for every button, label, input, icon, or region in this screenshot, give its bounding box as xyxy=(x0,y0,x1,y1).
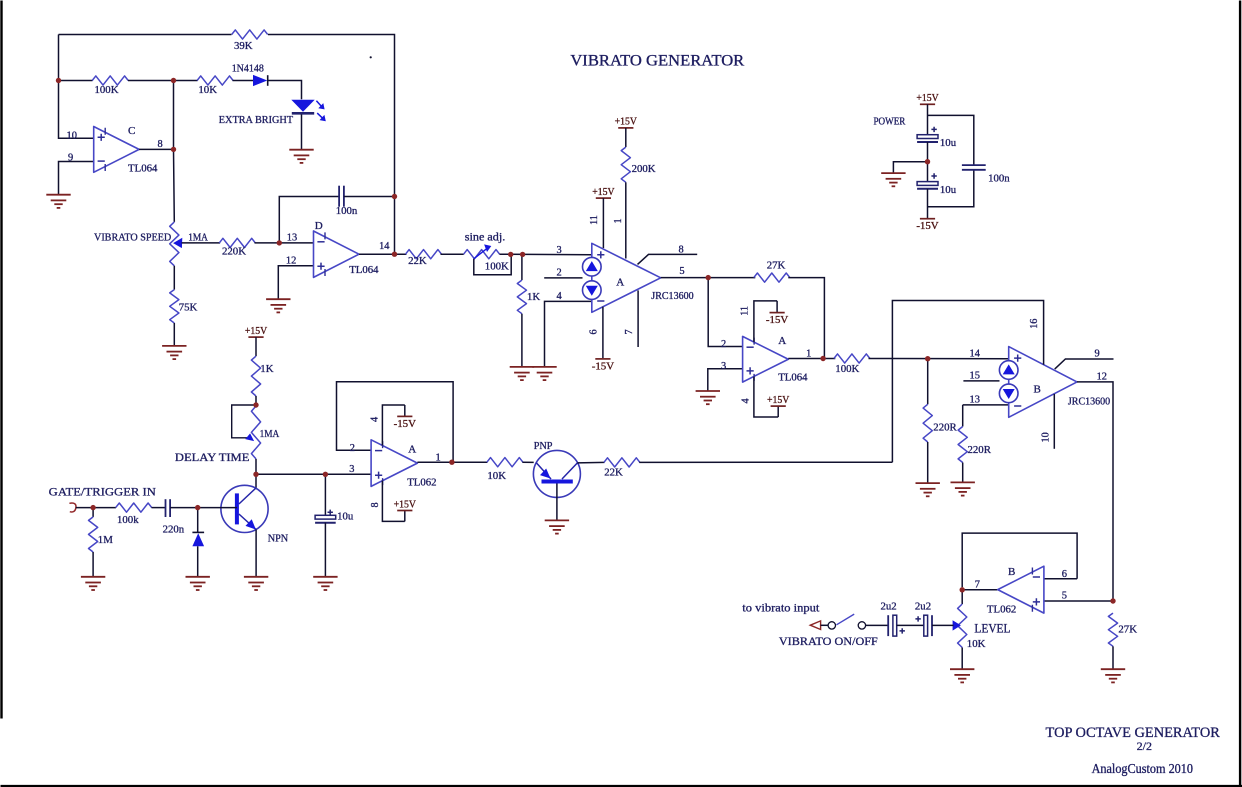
pot wiper level xyxy=(953,620,961,630)
capacitor 10u lower xyxy=(917,173,957,196)
svg-text:1N4148: 1N4148 xyxy=(232,62,264,74)
svg-text:15: 15 xyxy=(970,371,980,382)
svg-text:2u2: 2u2 xyxy=(915,601,931,613)
resistor P 1MA delay xyxy=(251,406,260,459)
svg-text:4: 4 xyxy=(370,417,381,422)
wire emitter to ground xyxy=(255,530,257,577)
svg-text:LEVEL: LEVEL xyxy=(974,621,1010,635)
wire 27K2 to ground xyxy=(1112,646,1114,669)
wire collector wire xyxy=(255,474,257,488)
ground opamp C pin9 xyxy=(46,195,70,208)
wire 10u lead xyxy=(324,474,326,515)
svg-text:GATE/TRIGGER IN: GATE/TRIGGER IN xyxy=(49,485,157,499)
svg-text:7: 7 xyxy=(975,580,980,591)
svg-text:13: 13 xyxy=(287,233,297,244)
wire pin9 wire xyxy=(59,162,94,195)
wire neg15 stem 062A xyxy=(404,405,406,416)
svg-text:11: 11 xyxy=(739,306,750,316)
wire 100n feedback left xyxy=(279,197,339,243)
input hook xyxy=(69,503,76,512)
svg-text:10K: 10K xyxy=(487,470,506,482)
junction node pin5 xyxy=(1110,598,1115,603)
transistor NPN xyxy=(221,485,288,544)
wire neg15 stem A xyxy=(776,301,778,312)
wire LED to ground xyxy=(301,115,303,150)
wire 27K input xyxy=(708,277,755,279)
svg-text:5: 5 xyxy=(679,266,684,277)
diode 1N4148 xyxy=(232,62,268,86)
wire 200K to pin1 xyxy=(625,182,627,258)
capacitor 2u2 a xyxy=(881,601,905,637)
svg-text:220R: 220R xyxy=(968,444,992,456)
svg-text:+15V: +15V xyxy=(767,394,789,406)
wire left vertical xyxy=(58,35,60,81)
wire pin7 wire xyxy=(962,589,998,591)
wire pin16 path xyxy=(892,301,1043,463)
wire out5 wire xyxy=(661,277,709,279)
resistor R 22K xyxy=(406,250,442,267)
wire pin4 path A xyxy=(754,377,778,417)
svg-text:TL064: TL064 xyxy=(778,371,808,383)
ground 220R-1 xyxy=(916,483,940,496)
ground 75K xyxy=(162,346,186,359)
ground tl064A pin3 xyxy=(696,391,720,404)
svg-text:1M: 1M xyxy=(98,534,113,546)
svg-text:C: C xyxy=(128,125,135,137)
junction node pin14 xyxy=(925,356,930,361)
wire output8 wire xyxy=(139,148,173,150)
wire 1K lead xyxy=(521,254,523,280)
transistor PNP xyxy=(533,440,580,497)
svg-text:JRC13600: JRC13600 xyxy=(1068,397,1110,408)
wire pin15 stub xyxy=(963,380,999,382)
wire 220R-1 lead xyxy=(927,359,929,405)
svg-text:1MA: 1MA xyxy=(260,428,280,440)
resistor R 1K xyxy=(517,280,540,314)
power +15V jrcA pin11 xyxy=(592,186,614,198)
svg-text:POWER: POWER xyxy=(874,117,906,128)
svg-text:-15V: -15V xyxy=(592,360,614,372)
ground R1K xyxy=(510,367,534,380)
wire power bottom stem xyxy=(927,189,929,219)
pin 9 stub xyxy=(1055,359,1114,369)
resistor R 100K 2 xyxy=(834,354,870,375)
svg-text:VIBRATO ON/OFF: VIBRATO ON/OFF xyxy=(779,634,878,648)
svg-text:+15V: +15V xyxy=(245,325,267,337)
svg-text:sine adj.: sine adj. xyxy=(465,232,506,244)
capacitor 100n power xyxy=(962,165,1010,184)
svg-text:75K: 75K xyxy=(179,301,198,313)
wire hook to node xyxy=(76,507,93,509)
junction node pin7 xyxy=(960,587,965,592)
wire 100k to 220n xyxy=(152,507,166,509)
wire pin11 stem xyxy=(602,198,604,248)
svg-text:22K: 22K xyxy=(604,466,623,478)
wire PNP collector out xyxy=(577,461,604,464)
power -15V tl064A pin11 xyxy=(766,313,788,327)
wire clamp diode lead xyxy=(197,508,199,532)
wire pin4 wire xyxy=(545,301,592,367)
op-amp U1D TL064 xyxy=(314,231,360,277)
wire 1K delay lead xyxy=(255,337,257,356)
wire 39K feedback top xyxy=(59,34,232,36)
resistor R 200K xyxy=(621,147,656,182)
svg-text:200K: 200K xyxy=(632,163,656,175)
svg-text:1MA: 1MA xyxy=(188,231,208,243)
svg-text:NPN: NPN xyxy=(268,533,289,545)
svg-text:1: 1 xyxy=(806,349,811,360)
junction node input xyxy=(90,505,95,510)
wire pos15 stem 062A xyxy=(404,511,406,522)
OTA U2B JRC13600 xyxy=(999,347,1077,418)
resistor R 27K 2 xyxy=(1108,613,1137,646)
svg-text:TL064: TL064 xyxy=(128,162,158,174)
svg-text:6: 6 xyxy=(1062,569,1067,580)
ground LED xyxy=(289,150,313,163)
svg-text:B: B xyxy=(1034,383,1041,395)
wire pin7 stub xyxy=(637,290,639,347)
svg-text:+15V: +15V xyxy=(592,186,614,198)
svg-text:TOP OCTAVE GENERATOR: TOP OCTAVE GENERATOR xyxy=(1046,724,1221,741)
op-amp U1C TL064 xyxy=(94,127,139,173)
resistor R 1M xyxy=(89,517,114,552)
wire pot to collector node xyxy=(255,459,257,474)
op-amp U4A TL062 xyxy=(371,440,417,487)
svg-text:AnalogCustom 2010: AnalogCustom 2010 xyxy=(1092,761,1194,776)
wire PNP base to ground xyxy=(556,484,558,521)
wire power top rail xyxy=(928,115,974,164)
wire level pot top xyxy=(961,590,963,604)
svg-text:12: 12 xyxy=(286,255,296,266)
svg-text:220R: 220R xyxy=(933,422,957,434)
LED EXTRA BRIGHT xyxy=(291,100,326,122)
wire cap1 to cap2 xyxy=(897,624,924,626)
wire 1M to ground xyxy=(92,552,94,577)
wire pin12 path xyxy=(1077,382,1113,601)
resistor R 27K xyxy=(754,260,790,283)
ground 1M xyxy=(81,577,105,590)
svg-text:10u: 10u xyxy=(940,184,957,196)
ground 10u xyxy=(313,577,337,590)
svg-text:100K: 100K xyxy=(835,363,859,375)
junction node sine2 xyxy=(520,252,525,257)
wire pin5 wire xyxy=(1044,600,1113,602)
svg-text:2u2: 2u2 xyxy=(881,601,897,613)
resistor P sine adj 100K xyxy=(464,250,500,259)
svg-text:JRC13600: JRC13600 xyxy=(651,291,693,302)
wire 200K top lead xyxy=(625,128,627,147)
svg-text:PNP: PNP xyxy=(534,440,553,452)
resistor R 220K xyxy=(219,238,255,257)
svg-text:14: 14 xyxy=(379,241,390,252)
wire power bottom rail xyxy=(928,171,974,207)
svg-text:-15V: -15V xyxy=(394,418,416,430)
svg-text:TL062: TL062 xyxy=(987,604,1016,616)
junction node cap-vert xyxy=(392,194,397,199)
svg-text:EXTRA BRIGHT: EXTRA BRIGHT xyxy=(219,114,294,126)
svg-text:11: 11 xyxy=(589,215,600,225)
wire 100n right plate xyxy=(344,196,395,198)
svg-text:DELAY TIME: DELAY TIME xyxy=(175,451,250,464)
junction node base xyxy=(195,505,200,510)
svg-text:2/2: 2/2 xyxy=(1137,739,1152,753)
wire pin12 wire xyxy=(278,266,313,299)
wire 75K to ground xyxy=(173,323,175,346)
svg-text:1: 1 xyxy=(436,453,441,464)
wire diode to LED xyxy=(268,81,302,100)
ground PNP base xyxy=(545,520,569,533)
svg-text:100n: 100n xyxy=(988,173,1010,185)
resistor R 220R 1 xyxy=(923,404,957,442)
wire pin4 power A xyxy=(382,405,404,445)
wire 10K to diode xyxy=(233,80,254,82)
junction node out 062A xyxy=(449,460,454,465)
svg-text:B: B xyxy=(1008,566,1015,578)
svg-text:VIBRATO GENERATOR: VIBRATO GENERATOR xyxy=(570,53,745,70)
OTA U2A JRC13600 xyxy=(583,243,661,312)
wire out1 wire A xyxy=(788,358,835,360)
off-page arrow xyxy=(810,621,820,630)
svg-text:220n: 220n xyxy=(163,524,185,536)
wire pin8 power A xyxy=(382,481,404,522)
svg-text:10u: 10u xyxy=(337,511,354,523)
svg-text:2: 2 xyxy=(350,443,355,454)
wire vert cap to out14 xyxy=(394,197,396,255)
svg-text:10: 10 xyxy=(1040,432,1051,442)
svg-text:9: 9 xyxy=(68,152,73,163)
switch VIBRATO ON/OFF xyxy=(779,614,878,648)
capacitor 220n xyxy=(163,499,185,535)
wire 220R-1 to ground xyxy=(927,442,929,483)
svg-text:2: 2 xyxy=(721,339,726,350)
svg-text:TL062: TL062 xyxy=(407,477,436,489)
svg-text:to vibrato input: to vibrato input xyxy=(742,601,820,615)
junction node 10u xyxy=(323,472,328,477)
svg-text:-15V: -15V xyxy=(766,314,788,326)
svg-text:10u: 10u xyxy=(940,137,957,149)
wire 22K2 long wire xyxy=(639,461,892,463)
svg-text:1: 1 xyxy=(613,218,624,223)
svg-text:100K: 100K xyxy=(95,84,119,96)
svg-text:3: 3 xyxy=(557,245,562,256)
junction node out8 xyxy=(171,147,176,152)
svg-text:10K: 10K xyxy=(967,638,986,650)
junction node out5 xyxy=(706,275,711,280)
wire 220n to base xyxy=(170,507,237,509)
svg-text:+15V: +15V xyxy=(394,498,416,510)
wire 100k lead xyxy=(93,507,116,509)
capacitor 100n xyxy=(336,186,358,217)
svg-text:100k: 100k xyxy=(117,514,139,526)
wire pin11 path A xyxy=(754,301,777,342)
wire out14 wire xyxy=(359,253,407,255)
resistor R 22K 2 xyxy=(604,458,640,479)
wire out1 wire 062A xyxy=(417,461,487,463)
wire 1K to ground xyxy=(521,314,523,367)
wire vert 100K-right to pot xyxy=(173,81,176,222)
wire sw to cap1 xyxy=(866,624,889,626)
svg-text:4: 4 xyxy=(741,398,752,403)
wire pin13 wire xyxy=(963,404,1009,406)
wire 1M lead xyxy=(92,508,94,517)
junction node out1A xyxy=(820,356,825,361)
svg-text:14: 14 xyxy=(970,348,981,359)
svg-text:6: 6 xyxy=(589,329,600,334)
wire level pot to ground xyxy=(961,648,963,670)
wire 39K top right to corner xyxy=(268,35,395,197)
svg-text:16: 16 xyxy=(1029,319,1040,329)
wire pin2 wire A xyxy=(708,278,742,347)
wire pin3 long wire xyxy=(256,473,371,475)
svg-text:27K: 27K xyxy=(1118,623,1137,635)
svg-text:100n: 100n xyxy=(336,205,358,217)
svg-text:VIBRATO SPEED: VIBRATO SPEED xyxy=(94,232,171,244)
wire 220K to node13 xyxy=(255,242,314,244)
resistor R 1K delay xyxy=(251,356,273,396)
resistor R 75K xyxy=(170,290,198,323)
wire feedback box B xyxy=(962,533,1077,587)
junction node after 100K xyxy=(171,78,176,83)
stray dot xyxy=(370,56,372,58)
wire between caps xyxy=(927,142,929,182)
resistor R 220R 2 xyxy=(958,427,992,463)
op-amp U4B TL062 xyxy=(998,566,1044,613)
svg-text:4: 4 xyxy=(557,291,563,302)
ground NPN emitter xyxy=(244,577,268,590)
wire arrow to sw xyxy=(821,624,829,626)
svg-text:9: 9 xyxy=(1095,349,1100,360)
wire 10u to ground xyxy=(324,523,326,577)
capacitor 2u2 b xyxy=(915,601,932,637)
pot wiper delay xyxy=(232,405,256,441)
svg-text:-15V: -15V xyxy=(916,220,938,232)
svg-text:13: 13 xyxy=(970,395,980,406)
svg-text:22K: 22K xyxy=(408,255,427,267)
ground opamp D pin12 xyxy=(266,299,290,312)
wire pin2 stub xyxy=(544,277,582,279)
wire 10K to PNP xyxy=(522,461,533,463)
ground pin4 A xyxy=(532,367,556,380)
svg-text:2: 2 xyxy=(557,268,562,279)
power +15V tl064A pin4 xyxy=(767,394,789,406)
resistor R 10K xyxy=(197,76,233,96)
wire 100K left lead xyxy=(59,80,93,82)
power -15V jrcA pin6 xyxy=(592,359,614,373)
wire pot to 75K xyxy=(173,266,175,290)
resistor P 1MA vibrato xyxy=(170,222,179,266)
svg-text:3: 3 xyxy=(349,464,354,475)
power +15V tl062A pin8 xyxy=(394,498,416,510)
wire pin6 stem xyxy=(602,307,604,358)
svg-text:7: 7 xyxy=(624,329,635,334)
power +15V 200K top xyxy=(615,116,637,128)
svg-text:8: 8 xyxy=(158,139,163,150)
ground power xyxy=(881,173,905,186)
wire 22K to sinepot xyxy=(441,253,464,255)
svg-text:A: A xyxy=(616,277,624,289)
ground 220R-2 xyxy=(951,482,975,495)
junction power mid node xyxy=(925,159,930,164)
pot wiper arrow 1MA xyxy=(173,238,182,248)
wire power ground branch xyxy=(893,162,927,173)
svg-text:100K: 100K xyxy=(485,261,509,273)
wire pin10 stub xyxy=(1053,394,1055,449)
wire wiper to 220K xyxy=(182,242,221,244)
wire 220R-2 lead xyxy=(962,405,964,427)
svg-text:A: A xyxy=(408,444,416,456)
power +15V delay 1K xyxy=(245,325,267,337)
svg-text:D: D xyxy=(315,220,323,232)
power -15V tl062A pin4 xyxy=(394,416,416,430)
junction node sine1 xyxy=(508,252,513,257)
wire 220R-2 to ground xyxy=(962,463,964,483)
wire pin6 wire xyxy=(1044,578,1077,580)
svg-text:220K: 220K xyxy=(222,246,246,258)
pin 8 stub xyxy=(638,254,698,264)
svg-text:27K: 27K xyxy=(767,260,786,272)
diode clamp xyxy=(192,532,204,546)
wire 1K to pot node xyxy=(255,396,257,405)
power -15V power rail xyxy=(916,219,938,233)
pot wiper sine adj xyxy=(474,244,511,274)
svg-text:39K: 39K xyxy=(234,40,253,52)
ground clamp diode xyxy=(186,577,210,590)
resistor P LEVEL 10K xyxy=(958,604,967,648)
wire 100K2 to pin14 xyxy=(869,358,1009,360)
capacitor 10u delay xyxy=(315,510,354,523)
junction node left-top xyxy=(56,78,61,83)
wire cap2 to pot xyxy=(932,624,954,626)
svg-text:5: 5 xyxy=(1062,591,1067,602)
svg-text:12: 12 xyxy=(1097,372,1107,383)
svg-text:1K: 1K xyxy=(527,291,540,303)
op-amp U3A TL064 xyxy=(743,336,789,382)
svg-text:8: 8 xyxy=(370,502,381,507)
wire pin10 wire xyxy=(59,81,94,139)
wire 27K to out corner xyxy=(788,278,824,359)
resistor R 10K 2 xyxy=(487,458,523,482)
resistor R 100K xyxy=(92,76,128,96)
power +15V power rail xyxy=(916,92,938,104)
svg-text:+15V: +15V xyxy=(916,92,938,104)
wire clamp diode to ground xyxy=(197,546,199,577)
svg-text:A: A xyxy=(778,335,786,347)
svg-text:3: 3 xyxy=(721,361,726,372)
wire power top stem xyxy=(927,104,929,134)
wire pos15 stem A xyxy=(777,406,779,417)
capacitor 10u upper xyxy=(917,127,957,149)
junction node collector xyxy=(253,472,258,477)
junction node out14 xyxy=(392,252,397,257)
ground 27K2 xyxy=(1101,669,1125,682)
resistor R 100k in xyxy=(116,503,152,526)
svg-text:+15V: +15V xyxy=(615,116,637,128)
wire feedback box A xyxy=(337,382,454,462)
wire 100K to 10K node xyxy=(128,80,198,82)
wire pin3 wire A xyxy=(708,369,743,391)
wire sinepot to pin3 xyxy=(500,253,592,256)
svg-text:TL064: TL064 xyxy=(349,264,379,276)
resistor R 39K xyxy=(232,30,268,52)
svg-text:10: 10 xyxy=(67,130,77,141)
svg-text:10K: 10K xyxy=(198,84,217,96)
svg-text:1K: 1K xyxy=(260,363,273,375)
junction node pin13 xyxy=(277,240,282,245)
ground LEVEL pot xyxy=(950,669,974,682)
junction node delay top xyxy=(253,402,258,407)
